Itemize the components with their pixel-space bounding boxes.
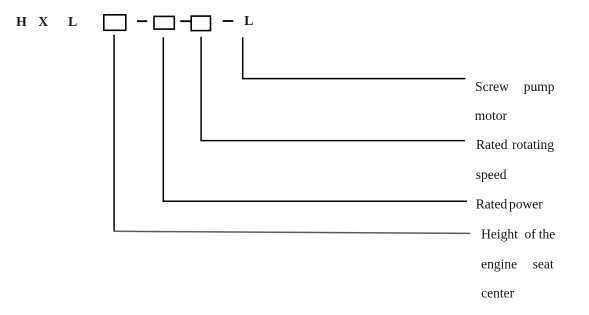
svg-text:speed: speed (476, 167, 507, 182)
svg-text:seat: seat (533, 257, 554, 272)
svg-text:engine: engine (481, 257, 517, 272)
svg-text:power: power (509, 197, 543, 212)
wire: height of engine seat center pointer (grey horizontal) (114, 231, 471, 233)
wire: screw pump motor pointer (243, 37, 466, 78)
wire: rated rotating speed pointer (201, 37, 465, 141)
svg-text:L: L (244, 13, 253, 28)
svg-text:X: X (38, 14, 48, 29)
svg-text:Rated: Rated (476, 137, 508, 152)
svg-text:pump: pump (524, 79, 555, 94)
svg-text:the: the (539, 227, 556, 242)
svg-text:Screw: Screw (475, 79, 509, 94)
dash 3 (223, 20, 234, 22)
svg-text:motor: motor (475, 108, 508, 123)
box 2 (rated power field) (154, 16, 174, 29)
svg-text:rotating: rotating (512, 137, 554, 152)
svg-text:of: of (525, 227, 537, 242)
wire: rated power pointer (163, 37, 467, 201)
box 3 (rated rotating speed field) (191, 16, 210, 31)
svg-text:L: L (68, 14, 77, 29)
svg-text:Rated: Rated (476, 197, 508, 212)
dash 2 (180, 20, 190, 22)
svg-text:Height: Height (481, 227, 518, 242)
box 1 (height of engine seat center field) (104, 15, 126, 30)
svg-text:H: H (16, 14, 27, 29)
svg-text:center: center (481, 286, 514, 301)
wire: height of engine seat center pointer (vertical) (113, 35, 115, 232)
dash 1 (137, 20, 147, 22)
